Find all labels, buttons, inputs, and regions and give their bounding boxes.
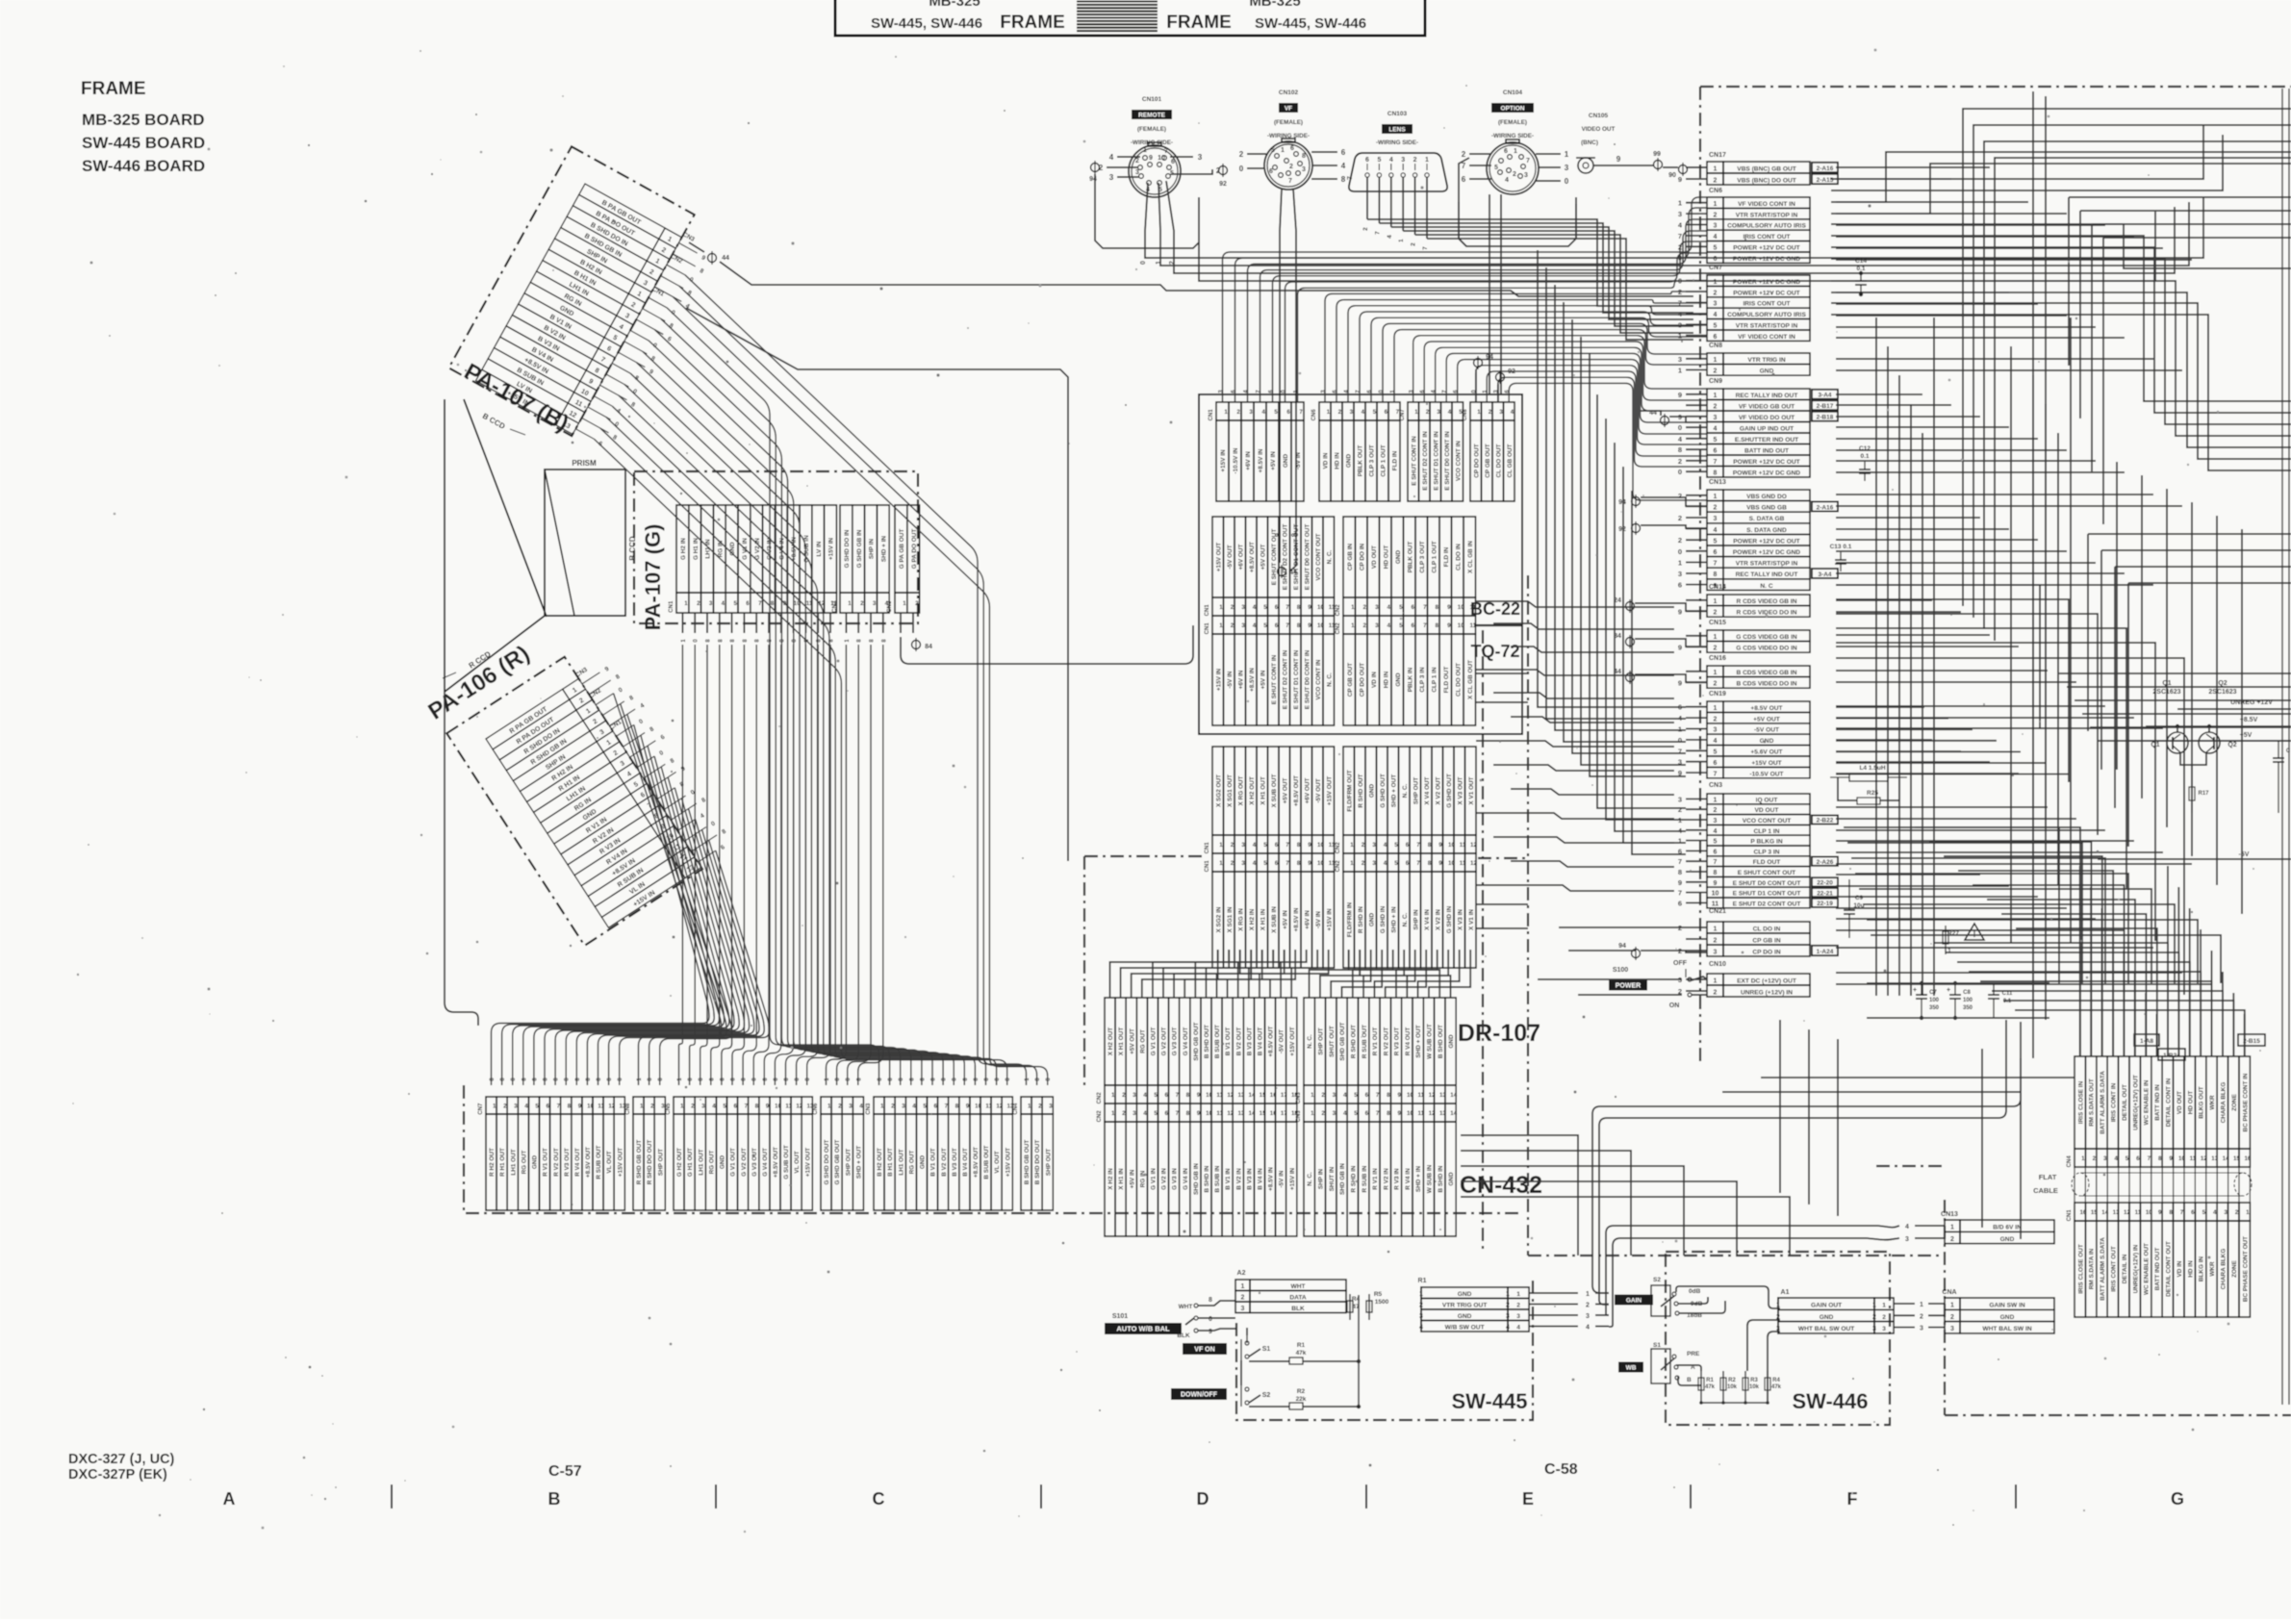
svg-text:+6V OUT: +6V OUT (1237, 545, 1244, 571)
connector CN104 OPTION body (1487, 140, 1539, 194)
svg-text:CLP 3 OUT: CLP 3 OUT (1419, 541, 1426, 572)
svg-text:R17: R17 (2198, 791, 2209, 797)
via 99 at CN17 (1653, 151, 1662, 171)
svg-text:CP DO OUT: CP DO OUT (1473, 444, 1480, 477)
svg-text:0: 0 (1678, 468, 1682, 476)
svg-text:2: 2 (1882, 1314, 1886, 1321)
svg-text:7: 7 (1286, 622, 1289, 629)
svg-text:1-A24: 1-A24 (1817, 949, 1834, 955)
svg-text:2: 2 (1236, 409, 1240, 416)
svg-text:4: 4 (1516, 1325, 1520, 1332)
svg-text:3: 3 (1198, 153, 1203, 162)
svg-text:1: 1 (1872, 1303, 1876, 1309)
svg-text:R SUB IN: R SUB IN (1362, 1165, 1368, 1192)
svg-text:LH1 IN: LH1 IN (705, 539, 712, 559)
svg-text:12: 12 (1470, 842, 1477, 849)
connector CN1 on PA-107(G) (669, 505, 838, 613)
svg-text:G V4 IN: G V4 IN (1183, 1168, 1189, 1190)
svg-text:E SHUT D0 CONT OUT: E SHUT D0 CONT OUT (1304, 524, 1311, 591)
svg-text:1: 1 (1514, 148, 1517, 155)
svg-text:MB-325 BOARD: MB-325 BOARD (82, 111, 205, 129)
svg-text:COMPULSORY AUTO IRIS: COMPULSORY AUTO IRIS (1727, 312, 1806, 318)
svg-text:4: 4 (1387, 604, 1390, 611)
svg-text:LH1 OUT: LH1 OUT (698, 1149, 704, 1175)
svg-text:R SHD DO OUT: R SHD DO OUT (647, 1140, 653, 1185)
svg-text:5: 5 (1494, 165, 1498, 171)
connector CN4 bottom band (B shd) (1013, 1097, 1053, 1210)
svg-text:3: 3 (1419, 1313, 1423, 1320)
svg-text:2: 2 (1321, 1110, 1325, 1117)
svg-text:BLKG OUT: BLKG OUT (2199, 1086, 2205, 1118)
svg-text:VTR TRIG IN: VTR TRIG IN (1747, 357, 1785, 364)
svg-text:3: 3 (661, 1103, 665, 1109)
svg-text:6: 6 (1341, 148, 1346, 157)
wire stubs right of stack (1836, 167, 2211, 984)
wire bus SW-445 to CN13 (1592, 1020, 2021, 1327)
svg-text:9: 9 (1308, 860, 1311, 867)
svg-text:E SHUT D0 CONT IN: E SHUT D0 CONT IN (1304, 649, 1311, 709)
svg-text:VTR TRIG OUT: VTR TRIG OUT (1442, 1303, 1488, 1309)
svg-text:CP DO IN: CP DO IN (1752, 949, 1780, 955)
svg-text:7: 7 (1423, 604, 1427, 611)
title block frame (835, 0, 1425, 36)
label CN-432 (1460, 1172, 1542, 1199)
svg-text:9: 9 (1438, 842, 1442, 849)
svg-text:E SHUT CONT OUT: E SHUT CONT OUT (1271, 529, 1278, 586)
svg-text:VTR START/STOP IN: VTR START/STOP IN (1736, 212, 1798, 218)
wire bus CN104 OPTION down (1459, 194, 1576, 394)
svg-text:1: 1 (1950, 1303, 1954, 1309)
svg-text:3: 3 (1241, 622, 1245, 629)
connector pair CN2-CN2 band3 right (1336, 747, 1477, 968)
svg-text:G SHD IN: G SHD IN (1380, 905, 1387, 933)
svg-text:9: 9 (1308, 622, 1311, 629)
svg-text:6: 6 (1678, 899, 1682, 907)
svg-text:FRAME: FRAME (1166, 13, 1232, 33)
connector CN101 wires left (1099, 153, 1140, 182)
central block outline (1199, 394, 1522, 734)
ref box 2-B15 above CN4 (2238, 1034, 2265, 1046)
svg-text:1: 1 (1678, 837, 1682, 846)
via 92 above band1 CN8 (1496, 368, 1515, 402)
svg-text:IQ OUT: IQ OUT (1756, 797, 1778, 803)
connector CNA table (1942, 1289, 2054, 1333)
svg-text:X V4 IN: X V4 IN (1424, 909, 1431, 930)
svg-text:SHP IN: SHP IN (1413, 909, 1419, 930)
wire loop CN104 enclosure (1459, 158, 1576, 246)
board PA-106(R) dash-dot outline (446, 657, 702, 946)
svg-text:8: 8 (1435, 622, 1438, 629)
svg-text:GAIN OUT: GAIN OUT (1811, 1303, 1842, 1309)
svg-text:1: 1 (1678, 199, 1682, 208)
svg-text:C-57: C-57 (548, 1463, 582, 1480)
svg-text:-5V IN: -5V IN (1279, 1170, 1286, 1187)
svg-text:PA-107 (G): PA-107 (G) (641, 524, 665, 631)
svg-text:3: 3 (1586, 1313, 1590, 1320)
svg-text:CN17: CN17 (1709, 152, 1726, 159)
svg-text:B H2 OUT: B H2 OUT (877, 1148, 883, 1177)
svg-text:X SUB IN: X SUB IN (1271, 906, 1278, 933)
svg-text:B V4 OUT: B V4 OUT (962, 1148, 969, 1177)
svg-text:SW-446 BOARD: SW-446 BOARD (82, 157, 205, 175)
svg-text:+6V OUT: +6V OUT (1304, 778, 1311, 804)
svg-text:WHT BAL SW OUT: WHT BAL SW OUT (1798, 1326, 1854, 1332)
svg-text:3: 3 (1109, 173, 1114, 182)
svg-text:FLD OUT: FLD OUT (1753, 859, 1781, 866)
svg-text:X H1 IN: X H1 IN (1260, 908, 1266, 930)
svg-text:G V3 OUT: G V3 OUT (1172, 1027, 1179, 1055)
legend SW-446 BOARD (82, 157, 205, 175)
svg-text:47k: 47k (1705, 1384, 1716, 1390)
svg-text:+6V IN: +6V IN (1237, 670, 1244, 689)
switch S101 rotary (1105, 1297, 1235, 1339)
svg-text:B V1 OUT: B V1 OUT (930, 1148, 937, 1177)
svg-text:X H2 IN: X H2 IN (1249, 908, 1256, 930)
svg-text:R V3 OUT: R V3 OUT (564, 1148, 571, 1177)
svg-text:100: 100 (1963, 998, 1973, 1003)
wire stubs central to right (1476, 673, 1528, 928)
svg-text:8: 8 (1714, 870, 1718, 876)
svg-text:+8.5V IN: +8.5V IN (1293, 907, 1300, 931)
svg-text:POWER +12V DC OUT: POWER +12V DC OUT (1733, 459, 1799, 466)
svg-text:OFF: OFF (1673, 960, 1688, 967)
svg-text:E SHUT D2 CONT IN: E SHUT D2 CONT IN (1422, 431, 1429, 491)
connector CN8 bottom band (R shd) (625, 1097, 665, 1210)
svg-text:4: 4 (1384, 860, 1387, 867)
svg-text:X RG OUT: X RG OUT (1237, 775, 1244, 805)
connector CN101 REMOTE body (1129, 142, 1181, 197)
svg-text:DETAIL IN: DETAIL IN (2122, 1254, 2128, 1283)
svg-text:G V2 IN: G V2 IN (1161, 1168, 1168, 1190)
wire maze right zone2 verticals (2117, 462, 2242, 914)
wire maze top-right extra (2069, 197, 2291, 847)
svg-text:0.1: 0.1 (2003, 999, 2012, 1004)
svg-text:GND: GND (1458, 1313, 1472, 1320)
svg-text:B V3 IN: B V3 IN (1246, 1168, 1253, 1190)
svg-text:5: 5 (1274, 409, 1278, 416)
svg-text:C: C (873, 1489, 885, 1509)
svg-text:7: 7 (1376, 1092, 1380, 1099)
connector CN3 on PA-107(G) (887, 505, 920, 613)
svg-text:9: 9 (2169, 1155, 2173, 1162)
svg-text:11: 11 (1329, 622, 1336, 629)
svg-text:PBLK IN: PBLK IN (1407, 667, 1413, 692)
svg-text:GAIN SW IN: GAIN SW IN (1989, 1303, 2025, 1309)
page ref C-57 (548, 1463, 582, 1480)
svg-text:CN1: CN1 (669, 600, 675, 613)
svg-text:CLP 1 OUT: CLP 1 OUT (1431, 541, 1438, 572)
svg-text:1: 1 (1477, 409, 1481, 416)
svg-text:BATT ALARM S.DATA: BATT ALARM S.DATA (2100, 1237, 2106, 1301)
svg-text:B SHD OUT: B SHD OUT (1438, 1025, 1444, 1058)
svg-text:8: 8 (1297, 604, 1301, 611)
svg-text:+15V OUT: +15V OUT (804, 1148, 811, 1177)
connector CN104 wires left (1462, 150, 1491, 184)
board border right bottom (1528, 1166, 2291, 1415)
svg-text:E SHUT D2 CONT OUT: E SHUT D2 CONT OUT (1282, 524, 1288, 591)
svg-text:6: 6 (1714, 256, 1718, 263)
svg-text:5: 5 (1399, 622, 1403, 629)
svg-text:GND: GND (1448, 1172, 1455, 1186)
svg-text:CN102: CN102 (1279, 89, 1299, 96)
svg-text:4: 4 (1341, 162, 1346, 170)
svg-text:2: 2 (2093, 1155, 2097, 1162)
svg-text:8: 8 (1435, 604, 1438, 611)
svg-text:CP DO IN: CP DO IN (1359, 543, 1365, 571)
svg-text:GND: GND (1760, 738, 1774, 745)
svg-text:8: 8 (1678, 445, 1682, 454)
svg-text:B V2 OUT: B V2 OUT (1235, 1028, 1242, 1056)
svg-text:94: 94 (1486, 354, 1493, 361)
svg-text:G H2 IN: G H2 IN (680, 538, 687, 560)
svg-text:7: 7 (2180, 1209, 2184, 1216)
svg-text:-5V IN: -5V IN (1295, 452, 1302, 469)
connector CN2 on PA-107(G) (832, 505, 889, 613)
svg-text:3: 3 (1882, 1326, 1886, 1332)
svg-text:4: 4 (1448, 409, 1452, 416)
svg-text:6: 6 (746, 600, 750, 607)
svg-text:-10.5V IN: -10.5V IN (1233, 447, 1239, 473)
svg-text:-5V OUT: -5V OUT (1315, 778, 1322, 802)
svg-text:RG OUT: RG OUT (708, 1150, 715, 1174)
svg-text:CN7: CN7 (1400, 409, 1406, 421)
svg-text:GND: GND (1395, 672, 1402, 687)
svg-text:R2: R2 (1297, 1388, 1306, 1395)
svg-text:VF VIDEO CONT IN: VF VIDEO CONT IN (1738, 201, 1795, 208)
svg-text:GND: GND (1368, 784, 1375, 799)
svg-text:VF VIDEO GB OUT: VF VIDEO GB OUT (1739, 404, 1795, 411)
svg-text:2SC1623: 2SC1623 (2208, 689, 2236, 696)
svg-text:X SG2 IN: X SG2 IN (1215, 906, 1222, 932)
via 24 at CN14 (1614, 597, 1707, 613)
connector CN104 wires right (1536, 150, 1569, 186)
svg-text:2: 2 (915, 600, 919, 607)
connector pair CN2-CN2 band2 right (1336, 517, 1477, 725)
svg-text:CN13: CN13 (1709, 479, 1726, 486)
svg-text:DOWN/OFF: DOWN/OFF (1181, 1392, 1218, 1399)
svg-text:12: 12 (1470, 860, 1477, 867)
svg-text:4: 4 (1109, 153, 1114, 162)
svg-text:1: 1 (1241, 1283, 1245, 1290)
svg-text:2: 2 (1678, 514, 1682, 522)
svg-text:B CDS VIDEO GB IN: B CDS VIDEO GB IN (1736, 670, 1796, 676)
svg-text:S. DATA GB: S. DATA GB (1749, 516, 1785, 522)
svg-text:R H2 OUT: R H2 OUT (489, 1148, 496, 1177)
svg-text:8: 8 (1678, 868, 1682, 876)
svg-text:1: 1 (684, 600, 688, 607)
svg-text:BC PHASE CONT OUT: BC PHASE CONT OUT (2242, 1236, 2249, 1302)
svg-text:1: 1 (1414, 409, 1418, 416)
via 44 at CN9 row3 (1640, 410, 1707, 427)
svg-text:SHP OUT: SHP OUT (1318, 1028, 1325, 1054)
svg-text:G SHD DO IN: G SHD DO IN (844, 529, 851, 568)
svg-text:6: 6 (1365, 1110, 1369, 1117)
svg-text:X CL GB IN: X CL GB IN (1467, 541, 1474, 573)
connector table CN8 (1678, 343, 1810, 375)
svg-text:REMOTE: REMOTE (1138, 112, 1165, 118)
resistor R2 22k (1249, 1388, 1361, 1409)
svg-text:BATT IND IN: BATT IND IN (2154, 1084, 2161, 1121)
svg-text:POWER +12V DC GND: POWER +12V DC GND (1733, 470, 1800, 477)
svg-text:-5V OUT: -5V OUT (1279, 1029, 1286, 1053)
svg-text:IRIS CONT OUT: IRIS CONT OUT (1743, 234, 1790, 241)
via 92 at CN13 (1618, 521, 1707, 535)
svg-text:RM S.DATA OUT: RM S.DATA OUT (2089, 1078, 2096, 1127)
svg-text:CN10: CN10 (1709, 961, 1726, 968)
svg-text:R2: R2 (1728, 1378, 1736, 1383)
svg-text:CABLE: CABLE (2033, 1186, 2058, 1195)
svg-text:VD IN: VD IN (2176, 1260, 2183, 1277)
wire maze right lower horizontals (1915, 673, 2291, 1056)
svg-text:10k: 10k (1727, 1384, 1738, 1390)
svg-text:R4: R4 (1772, 1378, 1780, 1383)
svg-text:3: 3 (1950, 1326, 1954, 1332)
svg-text:CL DO IN: CL DO IN (1753, 926, 1781, 932)
svg-text:94: 94 (1618, 943, 1626, 950)
svg-text:X V3 OUT: X V3 OUT (1457, 776, 1464, 804)
svg-text:HD IN: HD IN (1383, 671, 1389, 688)
label TQ-72 (1470, 642, 1519, 661)
svg-text:R SUB OUT: R SUB OUT (1362, 1025, 1368, 1058)
svg-text:G PA DO OUT: G PA DO OUT (911, 529, 918, 570)
wire bundle PA-107(B) to CN3/CN4 (595, 275, 1053, 1085)
svg-text:GND: GND (532, 1155, 539, 1170)
ref box 1-A8 above CN4 (2134, 1034, 2159, 1046)
svg-text:6: 6 (1678, 581, 1682, 590)
svg-text:3: 3 (1241, 604, 1245, 611)
svg-text:9: 9 (1447, 622, 1451, 629)
svg-text:DXC-327 (J, UC): DXC-327 (J, UC) (68, 1452, 175, 1467)
svg-text:VCO CONT OUT: VCO CONT OUT (1743, 818, 1792, 825)
svg-text:1: 1 (2081, 1155, 2085, 1162)
svg-text:+8.5V OUT: +8.5V OUT (773, 1147, 779, 1178)
connector CN4 flat-cable top (2067, 1056, 2252, 1167)
capacitor C21 right edge (2273, 741, 2291, 813)
svg-text:2: 2 (1239, 150, 1244, 159)
svg-text:2: 2 (1241, 1295, 1245, 1302)
connector table CN7 (1678, 265, 1810, 341)
svg-text:+5V OUT: +5V OUT (1753, 716, 1780, 723)
svg-text:90: 90 (1668, 172, 1676, 179)
resistor R1 47k (1249, 1342, 1361, 1364)
svg-text:+6V IN: +6V IN (1304, 910, 1311, 929)
svg-text:VF VIDEO CONT IN: VF VIDEO CONT IN (1738, 334, 1795, 341)
svg-text:VF VIDEO DO OUT: VF VIDEO DO OUT (1739, 415, 1795, 421)
svg-text:2-A26: 2-A26 (1817, 859, 1834, 866)
svg-text:2: 2 (860, 600, 864, 607)
svg-text:4: 4 (2213, 1209, 2217, 1216)
svg-text:(FEMALE): (FEMALE) (1274, 119, 1303, 126)
svg-text:8: 8 (1302, 153, 1306, 160)
connector table CN14 (1678, 584, 1810, 617)
svg-text:2: 2 (1950, 1236, 1954, 1243)
svg-text:VTR START/STOP IN: VTR START/STOP IN (1736, 323, 1798, 330)
svg-text:CN2: CN2 (1336, 604, 1341, 617)
svg-text:CLP 1 IN: CLP 1 IN (1754, 828, 1780, 835)
svg-text:2-B15: 2-B15 (2243, 1038, 2260, 1045)
svg-text:S101: S101 (1112, 1313, 1128, 1320)
svg-text:2: 2 (1714, 681, 1718, 688)
wire feeds into CN4 columns (2080, 866, 2245, 1056)
svg-text:-10.5V OUT: -10.5V OUT (1749, 771, 1783, 777)
svg-text:-WIRING SIDE-: -WIRING SIDE- (1376, 140, 1418, 146)
svg-text:3: 3 (1241, 842, 1245, 849)
svg-text:2: 2 (1462, 150, 1466, 159)
svg-text:-5V: -5V (2239, 851, 2250, 858)
via 44 below CN102 (1278, 565, 1297, 578)
svg-text:2-A16: 2-A16 (1817, 165, 1834, 172)
svg-text:+5V OUT: +5V OUT (1260, 545, 1266, 571)
svg-text:X V3 IN: X V3 IN (1457, 909, 1464, 930)
svg-text:GND: GND (1283, 454, 1289, 469)
svg-text:6: 6 (1286, 409, 1290, 416)
svg-text:7: 7 (1678, 889, 1682, 898)
svg-text:0: 0 (1678, 547, 1682, 556)
svg-text:6: 6 (1365, 157, 1369, 164)
svg-text:BC-22: BC-22 (1470, 599, 1520, 619)
svg-text:CN3: CN3 (1296, 1092, 1302, 1104)
svg-text:CN1: CN1 (1205, 842, 1210, 854)
svg-text:G SHD OUT: G SHD OUT (1380, 774, 1387, 808)
wire bus cluster to right stack (1476, 601, 1674, 891)
svg-text:47k: 47k (1771, 1384, 1782, 1390)
svg-text:8: 8 (1297, 622, 1301, 629)
svg-text:POWER +12V DC GND: POWER +12V DC GND (1733, 256, 1800, 263)
svg-text:1: 1 (1506, 1291, 1510, 1298)
svg-text:CN5: CN5 (666, 1103, 672, 1115)
wire power rails right (2098, 709, 2291, 859)
svg-text:3: 3 (1714, 223, 1718, 230)
svg-text:1: 1 (2246, 1209, 2250, 1216)
svg-text:SHP IN: SHP IN (1318, 1169, 1325, 1190)
svg-text:CN15: CN15 (1709, 620, 1726, 626)
connector CN3 bottom band (B) (866, 1097, 1014, 1210)
wire maze right zone2 horizontals (1836, 585, 2221, 995)
svg-text:9: 9 (1438, 860, 1442, 867)
svg-text:-5V IN: -5V IN (1227, 671, 1234, 688)
svg-text:1: 1 (1419, 1291, 1423, 1298)
svg-text:GND: GND (2000, 1314, 2015, 1321)
connector pair CN1-CN1 band2 left (1205, 517, 1336, 725)
svg-text:22-20: 22-20 (1817, 880, 1833, 887)
svg-text:0.1: 0.1 (1860, 453, 1869, 460)
svg-text:CN-432: CN-432 (1460, 1172, 1542, 1199)
svg-text:WKR: WKR (2209, 1261, 2216, 1277)
svg-text:7: 7 (1714, 859, 1718, 866)
svg-text:CN101: CN101 (1142, 96, 1162, 103)
svg-text:2: 2 (1678, 536, 1682, 545)
svg-text:CP GB OUT: CP GB OUT (1485, 444, 1491, 477)
svg-text:3: 3 (1714, 818, 1718, 825)
svg-text:CN2: CN2 (1336, 860, 1341, 873)
svg-text:L4 1.5uH: L4 1.5uH (1859, 765, 1885, 772)
svg-text:VTR START/STOP IN: VTR START/STOP IN (1736, 561, 1798, 568)
svg-text:2: 2 (1678, 805, 1682, 814)
svg-text:1: 1 (1714, 598, 1718, 605)
svg-text:E SHUT D1 CONT IN: E SHUT D1 CONT IN (1433, 431, 1439, 491)
svg-text:4: 4 (1714, 738, 1718, 745)
wire maze right middle (1831, 224, 2291, 470)
svg-text:5: 5 (2202, 1209, 2206, 1216)
svg-text:2: 2 (1362, 860, 1365, 867)
svg-text:WKR: WKR (2209, 1095, 2216, 1110)
connector CN6 band1 video columns (1311, 402, 1400, 501)
svg-text:R SHD OUT: R SHD OUT (1351, 1025, 1358, 1058)
svg-text:8: 8 (771, 600, 775, 607)
switch S1 VF ON (1183, 1339, 1270, 1360)
svg-text:1: 1 (1350, 842, 1354, 849)
svg-text:5: 5 (1714, 538, 1718, 545)
